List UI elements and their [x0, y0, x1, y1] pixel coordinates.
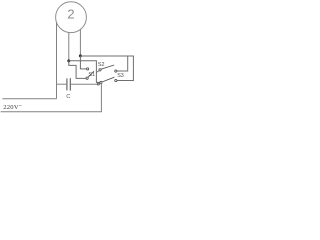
switch S1 lower terminal — [86, 77, 88, 79]
switch S2 blade — [101, 65, 114, 69]
capacitor C left plate — [66, 78, 68, 90]
svg-text:C: C — [66, 94, 70, 100]
switch S1 blade — [88, 71, 94, 77]
switch S3 blade — [102, 77, 115, 82]
wire: capacitor left lead — [57, 83, 67, 85]
wire: right motor lead — [79, 29, 81, 55]
wire: middle motor lead — [68, 32, 70, 60]
wire: right lead down to S1 upper terminal — [80, 56, 86, 69]
wire: left motor lead — [56, 23, 58, 99]
node: junction dot middle lead — [67, 59, 70, 62]
switch S1 upper terminal — [87, 68, 89, 70]
node: junction dot right lead — [79, 54, 82, 57]
wire: middle lead to S2/S3 column — [69, 61, 100, 83]
svg-text:S2: S2 — [98, 62, 105, 68]
capacitor C right plate — [69, 78, 71, 90]
wire: S3 pivot down to bottom supply lead — [1, 84, 102, 112]
svg-text:220V~: 220V~ — [3, 103, 22, 111]
capacitor right lead terminal — [97, 83, 99, 85]
wire: top supply lead (220V upper) — [2, 98, 56, 100]
wire: capacitor right lead — [71, 83, 98, 85]
switch S3 pivot terminal — [100, 82, 102, 84]
svg-text:S1: S1 — [88, 72, 95, 78]
wire: middle lead jog to S1 lower terminal — [69, 61, 86, 79]
motor M (circle) — [56, 2, 87, 33]
switch S2 left terminal — [99, 69, 101, 71]
wire: top bus to outer right and down to S3 right — [80, 56, 133, 81]
svg-text:S3: S3 — [117, 73, 124, 79]
wire: inner branch to S2 right — [117, 56, 128, 71]
wire: S2 left terminal stub to column — [97, 71, 100, 73]
switch S3 right terminal — [115, 79, 117, 81]
svg-text:2: 2 — [67, 7, 74, 22]
switch S2 right terminal — [115, 70, 117, 72]
